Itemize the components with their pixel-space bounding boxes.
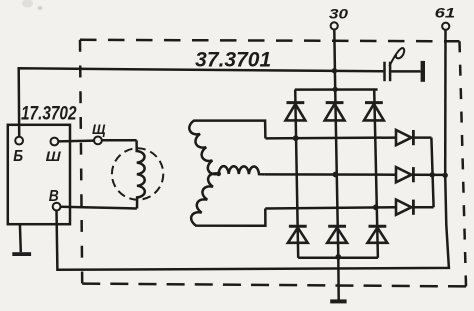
- svg-text:30: 30: [329, 6, 348, 22]
- svg-text:37.3701: 37.3701: [195, 49, 271, 72]
- svg-text:Щ: Щ: [92, 121, 106, 137]
- svg-text:61: 61: [435, 4, 456, 20]
- svg-text:17.3702: 17.3702: [21, 103, 77, 124]
- svg-text:В: В: [49, 188, 59, 205]
- svg-text:Ш: Ш: [46, 148, 61, 164]
- svg-text:Б: Б: [13, 148, 23, 165]
